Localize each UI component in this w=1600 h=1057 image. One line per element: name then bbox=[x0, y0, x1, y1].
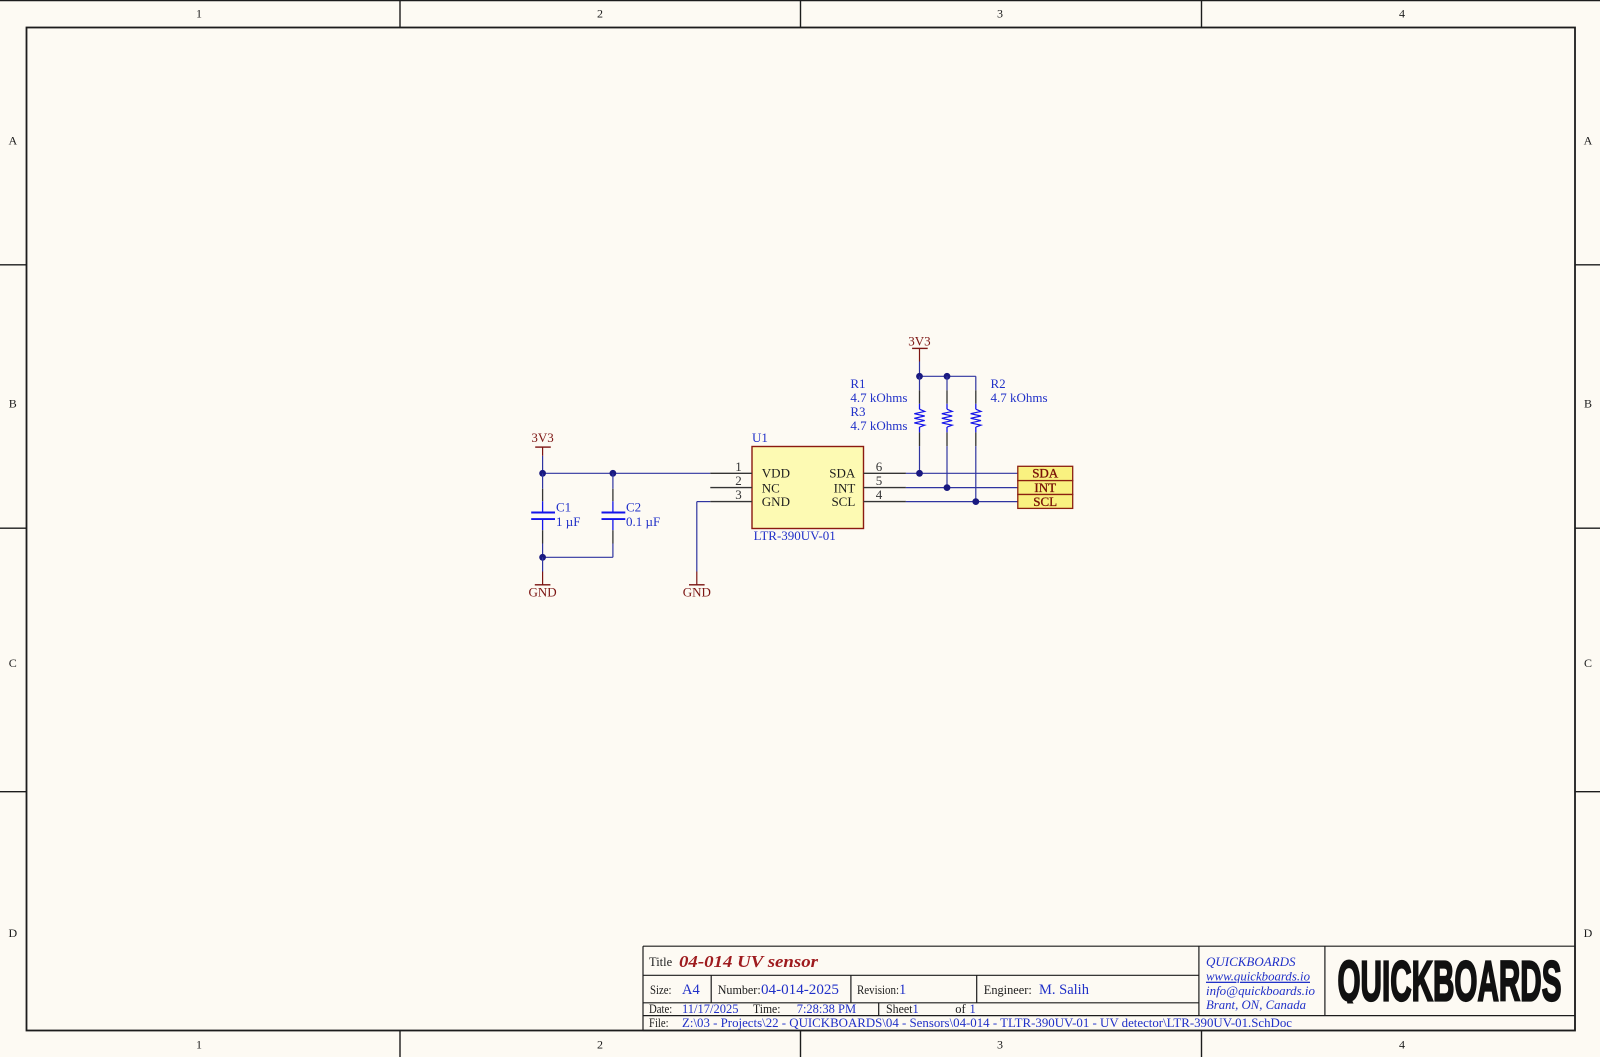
svg-text:2: 2 bbox=[735, 473, 742, 488]
port SDA bbox=[1018, 466, 1073, 481]
node junction at C1 top bbox=[539, 470, 546, 477]
svg-text:B: B bbox=[9, 396, 17, 410]
svg-text:D: D bbox=[8, 926, 17, 940]
svg-text:Size:: Size: bbox=[650, 983, 672, 997]
svg-text:3: 3 bbox=[735, 487, 742, 502]
ground GND (middle) bbox=[683, 572, 711, 600]
svg-text:LTR-390UV-01: LTR-390UV-01 bbox=[754, 528, 836, 543]
resistor R3 bbox=[850, 376, 952, 487]
svg-text:SCL: SCL bbox=[831, 494, 855, 509]
U1 pin 1 VDD bbox=[710, 459, 790, 481]
node junction at C2 top bbox=[610, 470, 617, 477]
U1 pin 6 SDA bbox=[829, 459, 906, 481]
svg-text:VDD: VDD bbox=[762, 466, 790, 481]
U1 pin 5 INT bbox=[834, 473, 906, 495]
svg-text:GND: GND bbox=[683, 585, 711, 600]
resistor R2 bbox=[971, 376, 1048, 502]
svg-text:2: 2 bbox=[597, 7, 603, 21]
svg-text:D: D bbox=[1584, 926, 1593, 940]
node junction SDA/R1 bbox=[916, 470, 923, 477]
svg-text:INT: INT bbox=[1034, 480, 1056, 495]
svg-text:1 µF: 1 µF bbox=[556, 514, 580, 529]
svg-text:Date:: Date: bbox=[649, 1002, 672, 1016]
node junction SCL/R2 bbox=[972, 498, 979, 505]
U1 pin 4 SCL bbox=[831, 487, 905, 509]
svg-text:Z:\03 - Projects\22 - QUICKBOA: Z:\03 - Projects\22 - QUICKBOARDS\04 - S… bbox=[682, 1016, 1292, 1030]
svg-text:4.7 kOhms: 4.7 kOhms bbox=[850, 390, 907, 405]
svg-text:6: 6 bbox=[876, 459, 883, 474]
wire INT net bbox=[906, 487, 1018, 489]
svg-text:2: 2 bbox=[597, 1037, 603, 1051]
capacitor C1 bbox=[531, 473, 580, 557]
svg-text:SCL: SCL bbox=[1033, 494, 1057, 509]
svg-text:0.1 µF: 0.1 µF bbox=[626, 514, 660, 529]
svg-text:4: 4 bbox=[1399, 1037, 1405, 1051]
svg-text:U1: U1 bbox=[752, 430, 768, 445]
svg-text:SDA: SDA bbox=[1032, 466, 1059, 481]
svg-text:3: 3 bbox=[997, 7, 1003, 21]
svg-text:4: 4 bbox=[1399, 7, 1405, 21]
company info cell bbox=[1206, 954, 1315, 1012]
node junction at C1 bottom bbox=[539, 554, 546, 561]
svg-text:C: C bbox=[9, 656, 17, 670]
svg-text:Engineer:: Engineer: bbox=[984, 983, 1032, 997]
size/number/revision/engineer row bbox=[650, 982, 1090, 998]
op-amp U1 body bbox=[752, 430, 864, 543]
svg-text:C: C bbox=[1584, 656, 1592, 670]
svg-text:4: 4 bbox=[876, 487, 883, 502]
svg-text:4.7 kOhms: 4.7 kOhms bbox=[850, 418, 907, 433]
node junction rail R1 bbox=[916, 373, 923, 380]
date/time/sheet row bbox=[649, 1002, 976, 1016]
svg-text:3V3: 3V3 bbox=[531, 430, 553, 445]
title row bbox=[649, 952, 818, 971]
port SCL bbox=[1018, 494, 1073, 509]
svg-text:B: B bbox=[1584, 396, 1592, 410]
resistor R1 bbox=[850, 376, 924, 473]
wire SCL net bbox=[906, 501, 1018, 503]
wire 3V3 stem (top) bbox=[919, 362, 921, 377]
svg-text:R3: R3 bbox=[850, 404, 865, 419]
svg-text:of: of bbox=[955, 1002, 966, 1016]
svg-text:3V3: 3V3 bbox=[908, 334, 930, 349]
wire to GND (left) bbox=[542, 557, 544, 571]
svg-text:4.7 kOhms: 4.7 kOhms bbox=[991, 390, 1048, 405]
svg-text:File:: File: bbox=[649, 1016, 669, 1030]
wire 3V3 rail to pin 1 bbox=[543, 472, 711, 474]
wire pin3 to GND (middle) bbox=[697, 502, 711, 572]
node junction rail R3 bbox=[944, 373, 951, 380]
svg-text:1: 1 bbox=[913, 1002, 919, 1016]
wire SDA net bbox=[906, 472, 1018, 474]
power port 3V3 (left) bbox=[531, 430, 553, 456]
svg-text:04-014-2025: 04-014-2025 bbox=[761, 982, 839, 998]
capacitor C2 bbox=[602, 473, 661, 557]
svg-text:M. Salih: M. Salih bbox=[1039, 982, 1090, 998]
svg-text:3: 3 bbox=[997, 1037, 1003, 1051]
svg-text:Number:: Number: bbox=[718, 983, 761, 997]
file row bbox=[649, 1016, 1292, 1030]
svg-text:QUICKBOARDS: QUICKBOARDS bbox=[1206, 954, 1296, 969]
svg-text:C1: C1 bbox=[556, 500, 571, 515]
svg-text:Sheet: Sheet bbox=[886, 1002, 913, 1016]
power port 3V3 (top) bbox=[908, 334, 930, 362]
svg-text:C2: C2 bbox=[626, 500, 641, 515]
svg-text:A: A bbox=[8, 134, 17, 148]
svg-text:Brant, ON, Canada: Brant, ON, Canada bbox=[1206, 997, 1306, 1012]
U1 pin 2 NC bbox=[710, 473, 780, 495]
SCHEMATIC bbox=[529, 334, 1073, 600]
svg-text:info@quickboards.io: info@quickboards.io bbox=[1206, 983, 1315, 998]
svg-text:1: 1 bbox=[970, 1002, 976, 1016]
port INT bbox=[1018, 480, 1073, 495]
svg-text:1: 1 bbox=[196, 7, 202, 21]
svg-text:1: 1 bbox=[899, 982, 906, 998]
svg-text:5: 5 bbox=[876, 473, 883, 488]
svg-text:GND: GND bbox=[762, 494, 790, 509]
svg-text:R1: R1 bbox=[850, 376, 865, 391]
node junction INT/R3 bbox=[944, 484, 951, 491]
svg-text:A4: A4 bbox=[682, 982, 700, 998]
wire C2 bottom to C1 bottom bbox=[543, 556, 613, 558]
svg-text:SDA: SDA bbox=[829, 466, 856, 481]
svg-text:7:28:38 PM: 7:28:38 PM bbox=[797, 1002, 856, 1016]
wire 3V3 stem (left) bbox=[542, 456, 544, 474]
TITLEBLOCK bbox=[643, 946, 1575, 1030]
svg-text:11/17/2025: 11/17/2025 bbox=[682, 1002, 738, 1016]
svg-text:GND: GND bbox=[529, 585, 557, 600]
svg-text:R2: R2 bbox=[991, 376, 1006, 391]
svg-text:1: 1 bbox=[735, 459, 742, 474]
company logo QUICKBOARDS bbox=[1338, 949, 1562, 1013]
svg-text:Revision:: Revision: bbox=[857, 983, 899, 997]
svg-text:Time:: Time: bbox=[753, 1002, 781, 1016]
ground GND (left) bbox=[529, 572, 557, 600]
svg-text:Title: Title bbox=[649, 955, 673, 969]
svg-text:04-014 UV sensor: 04-014 UV sensor bbox=[679, 952, 818, 971]
svg-text:A: A bbox=[1584, 134, 1593, 148]
wire 3V3 rail (top) bbox=[920, 375, 976, 377]
svg-text:1: 1 bbox=[196, 1037, 202, 1051]
U1 pin 3 GND bbox=[710, 487, 790, 509]
svg-text:www.quickboards.io: www.quickboards.io bbox=[1206, 969, 1310, 984]
